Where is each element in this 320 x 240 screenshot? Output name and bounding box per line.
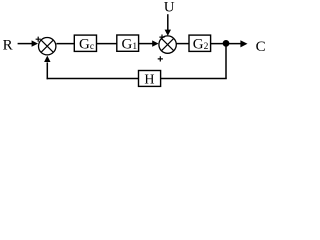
summing junction S2	[159, 36, 176, 53]
summing junction S1	[39, 38, 56, 55]
wire U down to S2	[167, 14, 169, 30]
plus sign at S2 left input	[159, 35, 164, 40]
block G2	[189, 35, 211, 53]
wire feedback up to S1	[46, 62, 48, 79]
wire junction dot down	[225, 43, 227, 78]
arrowhead into summing junction S2	[152, 40, 158, 46]
block H	[139, 71, 161, 88]
wire Gc to G1	[97, 43, 118, 45]
svg-text:Gc: Gc	[79, 37, 94, 53]
plus sign at S2 bottom-left	[158, 56, 163, 61]
arrowhead into S1 bottom	[44, 56, 50, 62]
wire S1 to block Gc	[56, 43, 74, 45]
svg-text:G2: G2	[193, 37, 209, 53]
arrowhead at output C	[240, 40, 247, 47]
feedback wire left segment	[47, 78, 138, 80]
arrowhead into summing junction S1	[32, 40, 38, 46]
svg-text:H: H	[144, 73, 154, 88]
svg-text:U: U	[164, 0, 175, 16]
junction node dot	[223, 40, 230, 47]
svg-text:G1: G1	[122, 37, 138, 53]
wire G2 to output C	[211, 43, 241, 45]
wire G1 to summing junction S2	[138, 43, 152, 45]
block Gc	[74, 35, 96, 53]
block G1	[117, 35, 139, 53]
arrowhead from U into S2	[165, 30, 171, 36]
feedback wire right segment	[161, 78, 227, 80]
plus sign at S1 left input	[36, 37, 41, 42]
svg-text:C: C	[256, 39, 266, 55]
svg-text:R: R	[3, 38, 13, 54]
wire S2 to block G2	[176, 43, 189, 45]
wire R to summing junction S1	[18, 43, 34, 45]
